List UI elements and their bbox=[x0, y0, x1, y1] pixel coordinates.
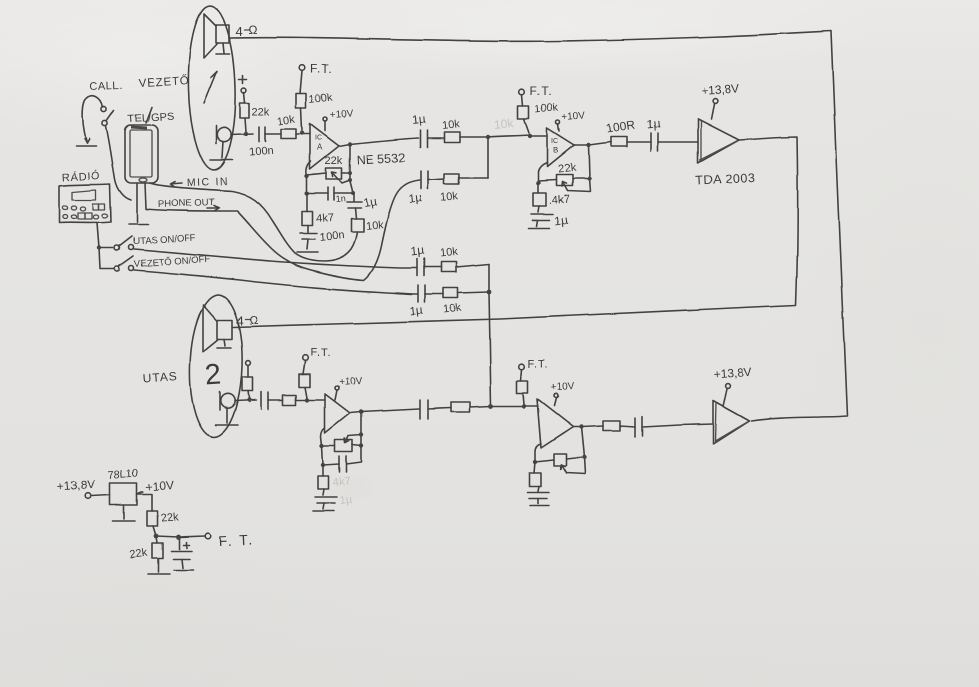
svg-text:2: 2 bbox=[204, 359, 222, 392]
node: IC A input bbox=[300, 131, 304, 135]
svg-text:F.T.: F.T. bbox=[310, 347, 331, 359]
resistor 100k (ch1 stage2) bbox=[518, 95, 560, 133]
terminal F.T. (ch2 stage2) bbox=[519, 359, 549, 371]
wire: UTAS switch to mixer row3 bbox=[134, 249, 417, 268]
node: ch2 mixer junction bbox=[489, 404, 494, 409]
node: PSU divider bbox=[154, 534, 159, 539]
numeral 1 bbox=[204, 71, 217, 103]
svg-text:+10V: +10V bbox=[561, 110, 586, 123]
regulator 78L10 bbox=[107, 467, 174, 511]
switch VEZETO ON/OFF bbox=[115, 254, 211, 272]
trimmer 22k (IC B2 feedback) bbox=[533, 427, 586, 474]
capacitor 1u (ch1 tap) bbox=[347, 194, 378, 210]
svg-text:F.T.: F.T. bbox=[310, 62, 333, 76]
svg-text:1µ: 1µ bbox=[409, 303, 424, 318]
svg-text:10k: 10k bbox=[365, 219, 384, 233]
wire: IC A output bbox=[339, 138, 418, 146]
svg-text:1µ: 1µ bbox=[410, 244, 425, 259]
svg-text:1µ: 1µ bbox=[553, 212, 568, 228]
capacitor 1u (mixer row2) bbox=[408, 171, 428, 206]
wire: IC B output bbox=[574, 142, 611, 145]
svg-text:UTAS: UTAS bbox=[142, 369, 178, 385]
svg-text:+10V: +10V bbox=[329, 108, 354, 121]
node: IC A2 input bbox=[305, 398, 309, 402]
switch UTAS ON/OFF bbox=[115, 233, 197, 251]
trimmer 22k (IC A2 feedback) bbox=[320, 412, 363, 452]
wire: IC A output down to feedback bbox=[349, 144, 351, 181]
svg-text:+13,8V: +13,8V bbox=[56, 477, 95, 494]
ground: phone bbox=[129, 183, 148, 224]
resistor 4k7 (ch1 stage2) bbox=[533, 183, 570, 212]
phone TEL/GPS bbox=[125, 107, 175, 183]
op-amp IC B bbox=[547, 128, 574, 167]
svg-text:1µ: 1µ bbox=[646, 117, 661, 132]
svg-text:1n: 1n bbox=[335, 193, 346, 204]
resistor 10k (ch1 tap, to MIC IN) bbox=[351, 208, 384, 233]
ground (ch1 stage2) bbox=[529, 220, 550, 228]
speaker LS1 4ohm bbox=[204, 14, 258, 58]
terminal + (mic bias ch1) bbox=[239, 75, 247, 83]
svg-text:+10V: +10V bbox=[550, 381, 575, 394]
svg-text:100k: 100k bbox=[534, 102, 559, 116]
op-amp IC A2 bbox=[325, 394, 350, 433]
terminal +13,8V (TDA2003 ch1) bbox=[700, 81, 739, 119]
node mic1 bbox=[244, 132, 248, 136]
wire: call jack to phone bbox=[106, 126, 131, 200]
resistor 100k (ch2 stage1) bbox=[299, 361, 310, 398]
ground (ch2 feedback) bbox=[313, 503, 334, 511]
wire: speaker1 to outer loop (top edge, right edge, to TDA2003#2 output) bbox=[229, 31, 847, 421]
svg-text:IC: IC bbox=[551, 138, 558, 145]
svg-text:TEL/GPS: TEL/GPS bbox=[128, 111, 175, 125]
svg-text:10k: 10k bbox=[439, 246, 458, 260]
wire: IC B2 output bbox=[573, 426, 603, 427]
svg-text:1µ: 1µ bbox=[339, 494, 353, 507]
wire: radio to switch bus bbox=[97, 223, 114, 269]
svg-text:1µ: 1µ bbox=[362, 194, 377, 210]
svg-text:F.T.: F.T. bbox=[528, 359, 549, 371]
capacitor 1n (IC A feedback) bbox=[305, 176, 355, 204]
terminal F.T. (ch1 stage1) bbox=[299, 62, 332, 76]
capacitor 10u + (PSU) bbox=[171, 537, 193, 570]
node: IC B input bbox=[528, 134, 532, 138]
terminal +13,8V (PSU input) bbox=[56, 477, 110, 498]
capacitor 1u (mixer row4) bbox=[409, 285, 425, 318]
resistor 100R (ch1 output) bbox=[605, 118, 651, 146]
terminal F.T. (ch1 stage2) bbox=[519, 84, 552, 98]
wire: TDA2003#1 output loop to speaker 2 bbox=[233, 137, 798, 327]
resistor 10k (mixer row2) bbox=[428, 174, 488, 204]
capacitor 1u (ch2 stage2 gnd) bbox=[527, 492, 549, 498]
power amp TDA2003 (ch1) bbox=[695, 119, 755, 188]
svg-text:+13,8V: +13,8V bbox=[713, 364, 752, 381]
terminal +10V (IC B2) bbox=[550, 381, 575, 406]
node: IC B2 input bbox=[522, 404, 526, 408]
resistor 4k7 (ch1) bbox=[302, 193, 334, 232]
ground (78L10) bbox=[113, 505, 135, 521]
resistor 4k7 (ch2 stage2) bbox=[529, 462, 541, 491]
resistor 10k (ch1 input) bbox=[265, 114, 310, 139]
terminal +13,8V (TDA2003 ch2) bbox=[713, 364, 752, 407]
svg-text:MIC IN: MIC IN bbox=[187, 176, 229, 189]
svg-text:+10V: +10V bbox=[145, 478, 174, 494]
svg-text:IC: IC bbox=[315, 135, 322, 142]
svg-text:100n: 100n bbox=[319, 229, 345, 243]
enclosure ellipse 2 (UTAS unit) bbox=[188, 294, 245, 438]
wire mic1 to node bbox=[231, 134, 253, 135]
resistor 10k (ch2 interstage) bbox=[428, 402, 491, 412]
microphone M2 bbox=[215, 392, 238, 425]
svg-text:10k: 10k bbox=[494, 116, 516, 132]
svg-text:22k: 22k bbox=[160, 512, 179, 525]
capacitor 1u (mixer row1) bbox=[411, 112, 427, 147]
svg-text:RÁDIÓ: RÁDIÓ bbox=[61, 169, 100, 184]
svg-text:100k: 100k bbox=[308, 92, 333, 106]
wire: IC A inverting input bbox=[306, 161, 311, 176]
resistor 10k (mixer row4) bbox=[425, 288, 489, 316]
trimmer 22k (IC A feedback) bbox=[305, 155, 352, 183]
node: row4 junction bbox=[487, 290, 492, 295]
capacitor (ch2 output 1u) bbox=[635, 417, 713, 437]
op-amp IC A (NE5532) bbox=[310, 124, 339, 169]
terminal +10V (IC B) bbox=[556, 110, 586, 131]
ground (ch2 stage2) bbox=[530, 498, 549, 505]
resistor 100k (ch2 stage2) bbox=[517, 370, 528, 404]
wire: mixer bus down to ch2 bbox=[489, 264, 491, 406]
svg-text:10k: 10k bbox=[277, 114, 297, 128]
node: mixer row1/row2 join bbox=[486, 135, 490, 139]
svg-text:CALL.: CALL. bbox=[90, 80, 123, 93]
svg-text:+13,8V: +13,8V bbox=[700, 81, 739, 98]
resistor 22k (mic bias ch1) bbox=[240, 92, 270, 132]
svg-text:F. T.: F. T. bbox=[218, 531, 254, 549]
resistor 22k (PSU lower) bbox=[129, 536, 163, 572]
svg-text:10k: 10k bbox=[440, 190, 459, 204]
svg-text:4: 4 bbox=[236, 313, 243, 328]
op-amp IC B2 bbox=[537, 399, 573, 448]
power amp TDA2003 (ch2) bbox=[713, 401, 749, 444]
svg-text:Ω: Ω bbox=[249, 313, 258, 327]
svg-text:NE 5532: NE 5532 bbox=[356, 150, 405, 167]
svg-text:PHONE OUT: PHONE OUT bbox=[158, 197, 215, 210]
svg-text:22k: 22k bbox=[325, 155, 343, 167]
svg-text:22k: 22k bbox=[252, 106, 270, 118]
wire mic2 to node bbox=[235, 400, 256, 401]
capacitor 1u (ch1 output) bbox=[646, 117, 698, 151]
terminal +10V (IC A2) bbox=[335, 375, 363, 400]
wire: VEZETO switch to mixer row4 bbox=[134, 270, 417, 294]
svg-text:4k7: 4k7 bbox=[332, 475, 351, 489]
svg-text:F.T.: F.T. bbox=[530, 84, 553, 98]
svg-text:22k: 22k bbox=[557, 162, 576, 176]
terminal +10V (IC A) bbox=[323, 108, 354, 131]
terminal F.T. (PSU) bbox=[205, 531, 254, 549]
jack CALL bbox=[76, 80, 123, 146]
speaker LS2 4ohm bbox=[203, 305, 258, 352]
capacitor 1u (mixer row3) bbox=[410, 244, 425, 276]
svg-text:10k: 10k bbox=[443, 302, 462, 316]
radio RADIO bbox=[59, 169, 111, 223]
capacitor 100n (ch2 to gnd) bbox=[315, 497, 337, 503]
svg-text:A: A bbox=[317, 143, 323, 152]
wire MIC IN (phone to ch1 tap) bbox=[150, 176, 357, 261]
wire: IC A2 output bbox=[350, 409, 419, 413]
resistor 100k (ch1 stage1) bbox=[296, 71, 334, 130]
trimmer 22k (IC B feedback) bbox=[536, 145, 591, 192]
svg-text:4: 4 bbox=[236, 24, 243, 39]
capacitor 1u (ch2 interstage) bbox=[420, 400, 428, 419]
svg-text:4k7: 4k7 bbox=[315, 212, 334, 225]
microphone M1 bbox=[210, 126, 232, 160]
enclosure ellipse 1 (VEZETO unit) bbox=[186, 5, 237, 170]
svg-text:100n: 100n bbox=[248, 145, 273, 159]
resistor 4k7 (ch2) bbox=[318, 465, 329, 495]
resistor 22k (mic bias ch2) bbox=[242, 361, 253, 398]
resistor 22k (PSU upper) bbox=[147, 511, 179, 536]
svg-text:1µ: 1µ bbox=[411, 112, 426, 127]
node: switch bus junction bbox=[97, 246, 101, 250]
terminal F.T. (ch2 stage1) bbox=[302, 347, 331, 361]
capacitor (IC A2 feedback lower) bbox=[321, 446, 361, 472]
ground (ch1 feedback) bbox=[297, 239, 318, 252]
resistor 10k (mixer row3) bbox=[424, 246, 489, 272]
ground (PSU lower 22k) bbox=[148, 573, 169, 575]
svg-text:22k: 22k bbox=[129, 547, 149, 561]
svg-text:1µ: 1µ bbox=[408, 191, 423, 206]
svg-text:10k: 10k bbox=[441, 118, 460, 132]
capacitor 1u (ch1 stage2 gnd) bbox=[531, 212, 569, 228]
capacitor 100n (ch1 to gnd) bbox=[300, 229, 345, 243]
svg-text:B: B bbox=[553, 146, 558, 155]
resistor 10k (mixer row1) bbox=[427, 118, 488, 142]
svg-text:.4k7: .4k7 bbox=[548, 194, 570, 207]
wire: divider to F.T. terminal bbox=[156, 536, 205, 537]
capacitor 100n (ch1 input) bbox=[248, 127, 273, 159]
wire PHONE OUT (phone to mixer row2) bbox=[145, 180, 420, 280]
svg-text:+10V: +10V bbox=[338, 375, 363, 388]
capacitor 100n (ch2 input) bbox=[261, 392, 268, 409]
svg-text:Ω: Ω bbox=[249, 23, 258, 37]
resistor 10k (ch2 input) bbox=[268, 395, 324, 405]
resistor (ch2 output 100R) bbox=[603, 421, 635, 431]
